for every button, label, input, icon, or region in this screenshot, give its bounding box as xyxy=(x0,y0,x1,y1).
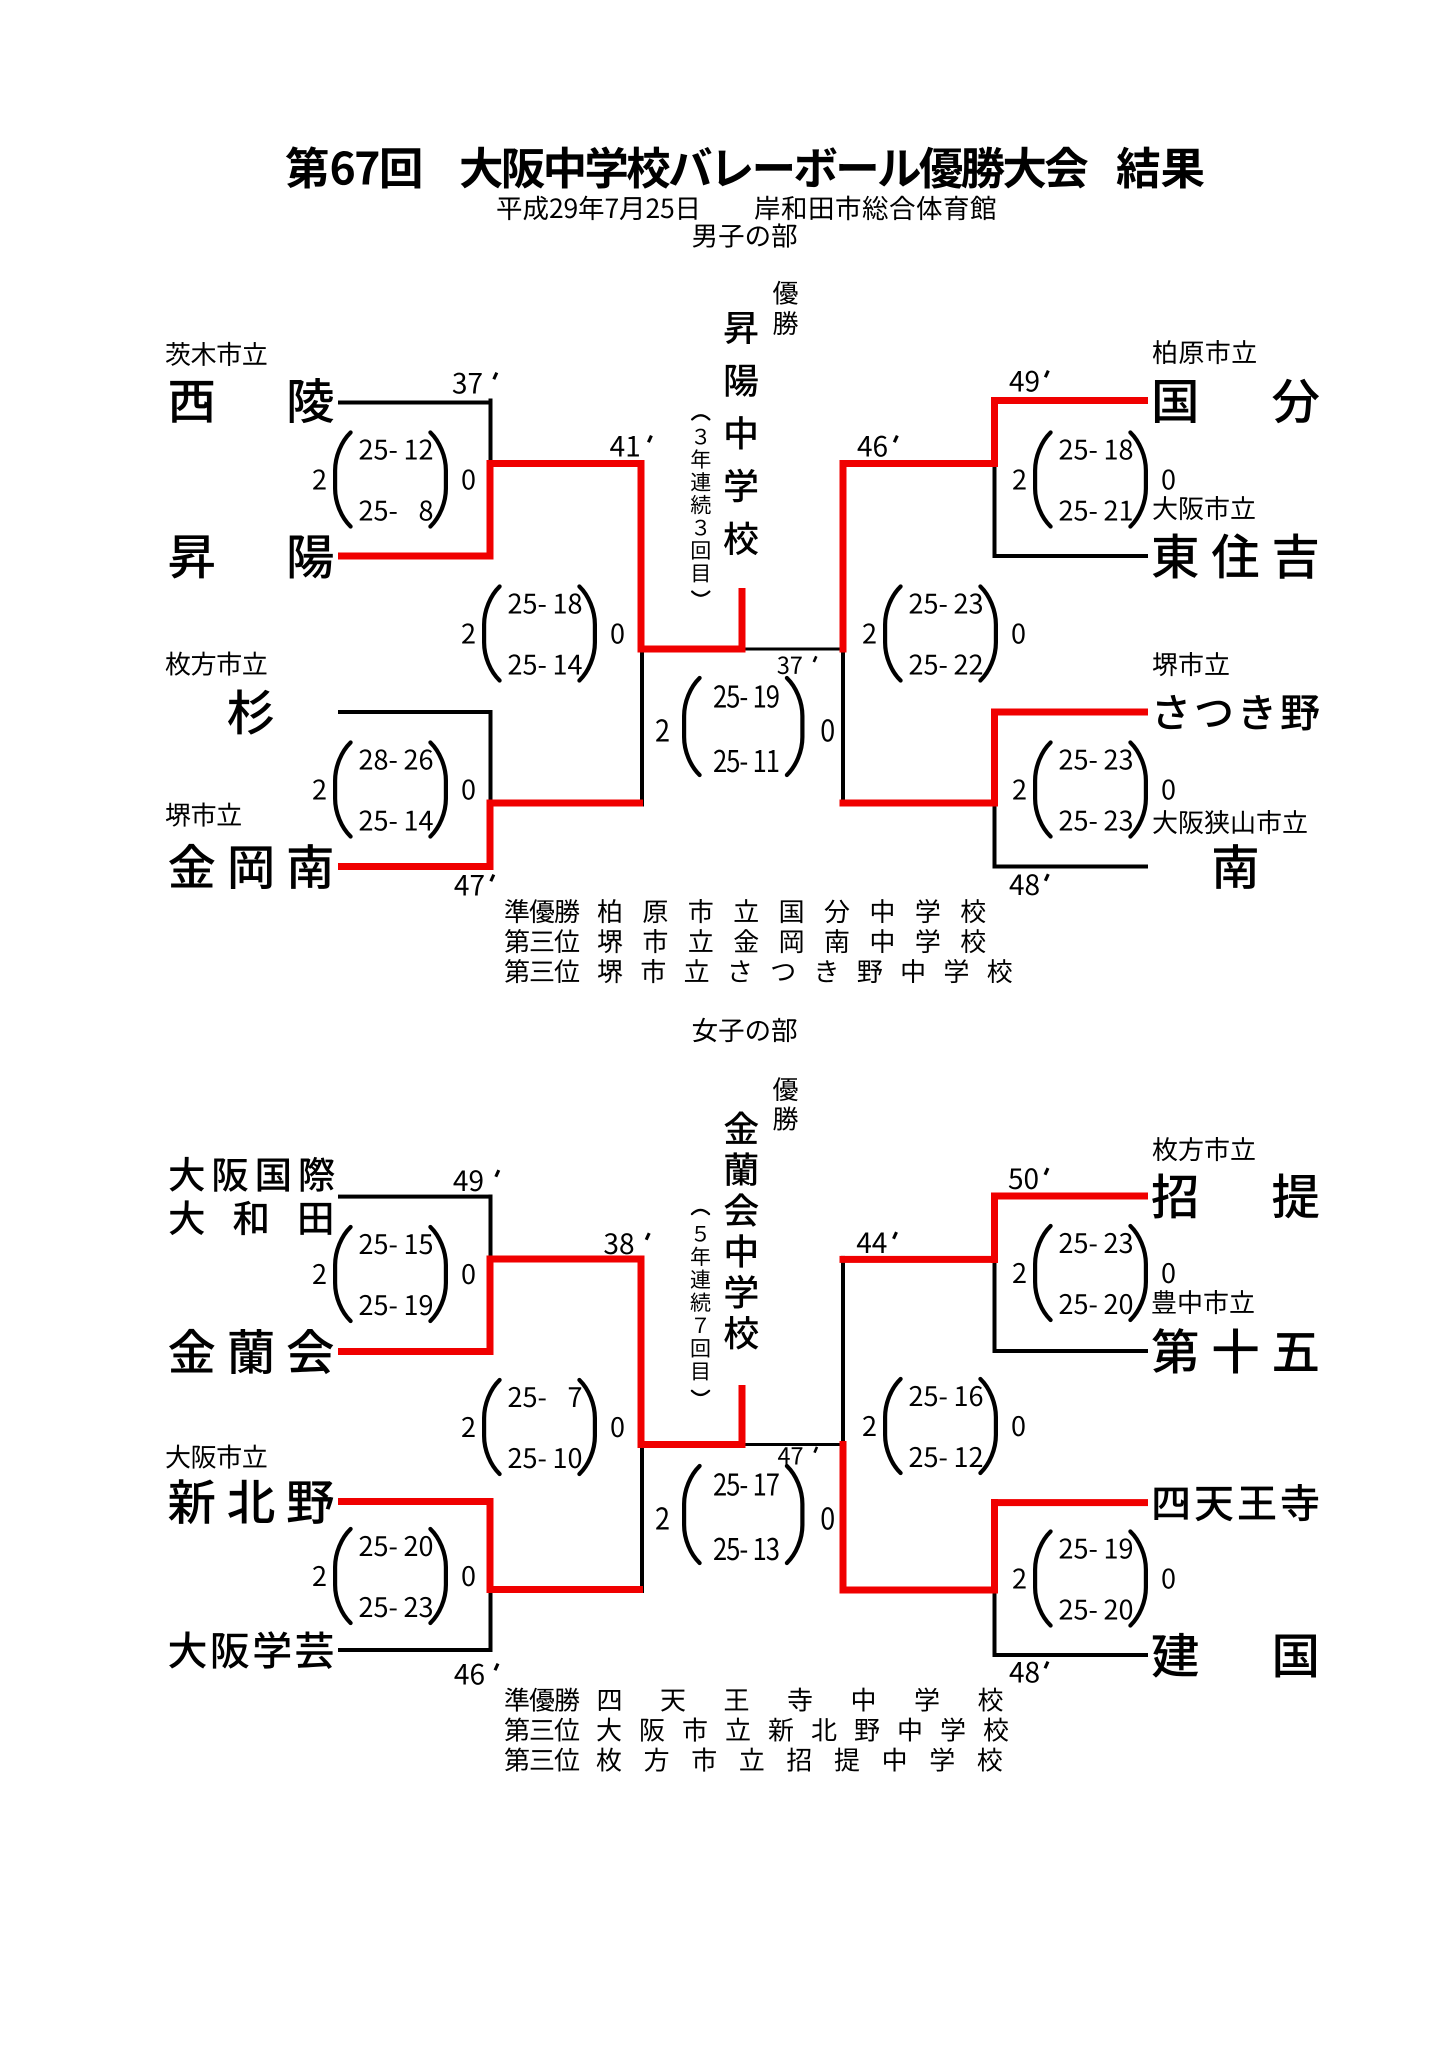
bracket lines (black) xyxy=(692,415,709,419)
text glyphs xyxy=(286,146,328,188)
winner path lines (red) xyxy=(338,553,493,560)
